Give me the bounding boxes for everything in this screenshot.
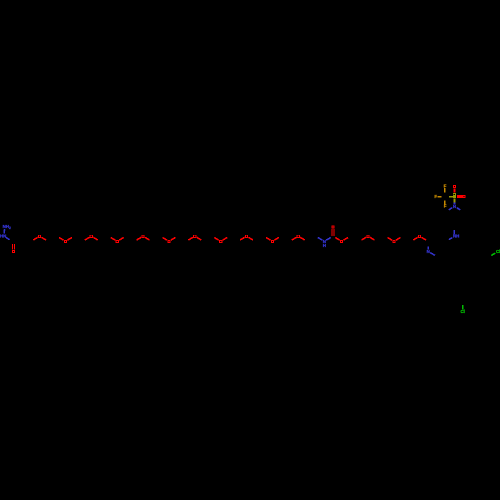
pyridine N1-C6 bond stub — [430, 253, 435, 256]
PEG ether O11 — [292, 237, 297, 240]
svg-text:Cl: Cl — [496, 249, 500, 254]
PEG ether O3 — [85, 237, 90, 240]
carbamate N bonds — [318, 237, 323, 240]
PEG ether O2 — [59, 237, 64, 240]
svg-text:F: F — [444, 184, 447, 189]
S=O right O label — [462, 195, 465, 198]
bond HN-C carbonyl — [6, 237, 10, 239]
PEG ether O1 — [33, 237, 38, 240]
S-N bond upper half — [454, 199, 456, 203]
PEG ether O5 — [137, 237, 142, 240]
chlorophenyl Cl right stub — [491, 253, 495, 256]
sulfonyl S label — [453, 193, 456, 198]
S-N bond lower half — [454, 203, 456, 205]
chlorophenyl Cl bottom stub — [462, 305, 464, 310]
svg-text:HN: HN — [0, 233, 6, 238]
piperidine N-C6 stub — [457, 208, 461, 210]
NH-piperidine bond — [453, 230, 455, 235]
carbamate ester O — [335, 237, 340, 240]
PEG ether O13 — [388, 237, 393, 240]
CF3 F top bond — [444, 188, 446, 193]
NH-C4 bond stub — [449, 238, 452, 240]
carbamate carbonyl O label — [331, 225, 334, 228]
svg-text:F: F — [434, 194, 437, 199]
CF3 F bottom bond — [444, 201, 446, 205]
svg-text:H: H — [323, 243, 326, 248]
carbamate C=O double bond — [331, 229, 333, 236]
pyridine N1 bond from C2 — [427, 247, 429, 250]
piperidine N-C2 stub — [449, 208, 453, 210]
S=O top double bond — [453, 189, 455, 193]
PEG ether O7 — [188, 237, 193, 240]
PEG ether O9 — [240, 237, 245, 240]
hydrazide C=O double bond — [12, 244, 14, 250]
bond N-N — [3, 229, 6, 233]
S=O top O label — [453, 185, 456, 188]
PEG ether O14 — [413, 237, 418, 240]
PEG ether O8 — [214, 237, 219, 240]
PEG ether O6 — [162, 237, 167, 240]
svg-text:N: N — [453, 204, 456, 209]
C-S bond half — [449, 196, 453, 198]
S=O right double bond — [457, 195, 463, 198]
svg-text:Cl: Cl — [460, 309, 464, 314]
hydrazide carbonyl O label — [12, 250, 15, 253]
svg-text:N: N — [427, 249, 430, 254]
PEG ether O12 — [362, 237, 367, 240]
CF3 F left bond — [437, 196, 441, 198]
PEG ether O4 — [111, 237, 116, 240]
PEG ether O10 — [266, 237, 271, 240]
